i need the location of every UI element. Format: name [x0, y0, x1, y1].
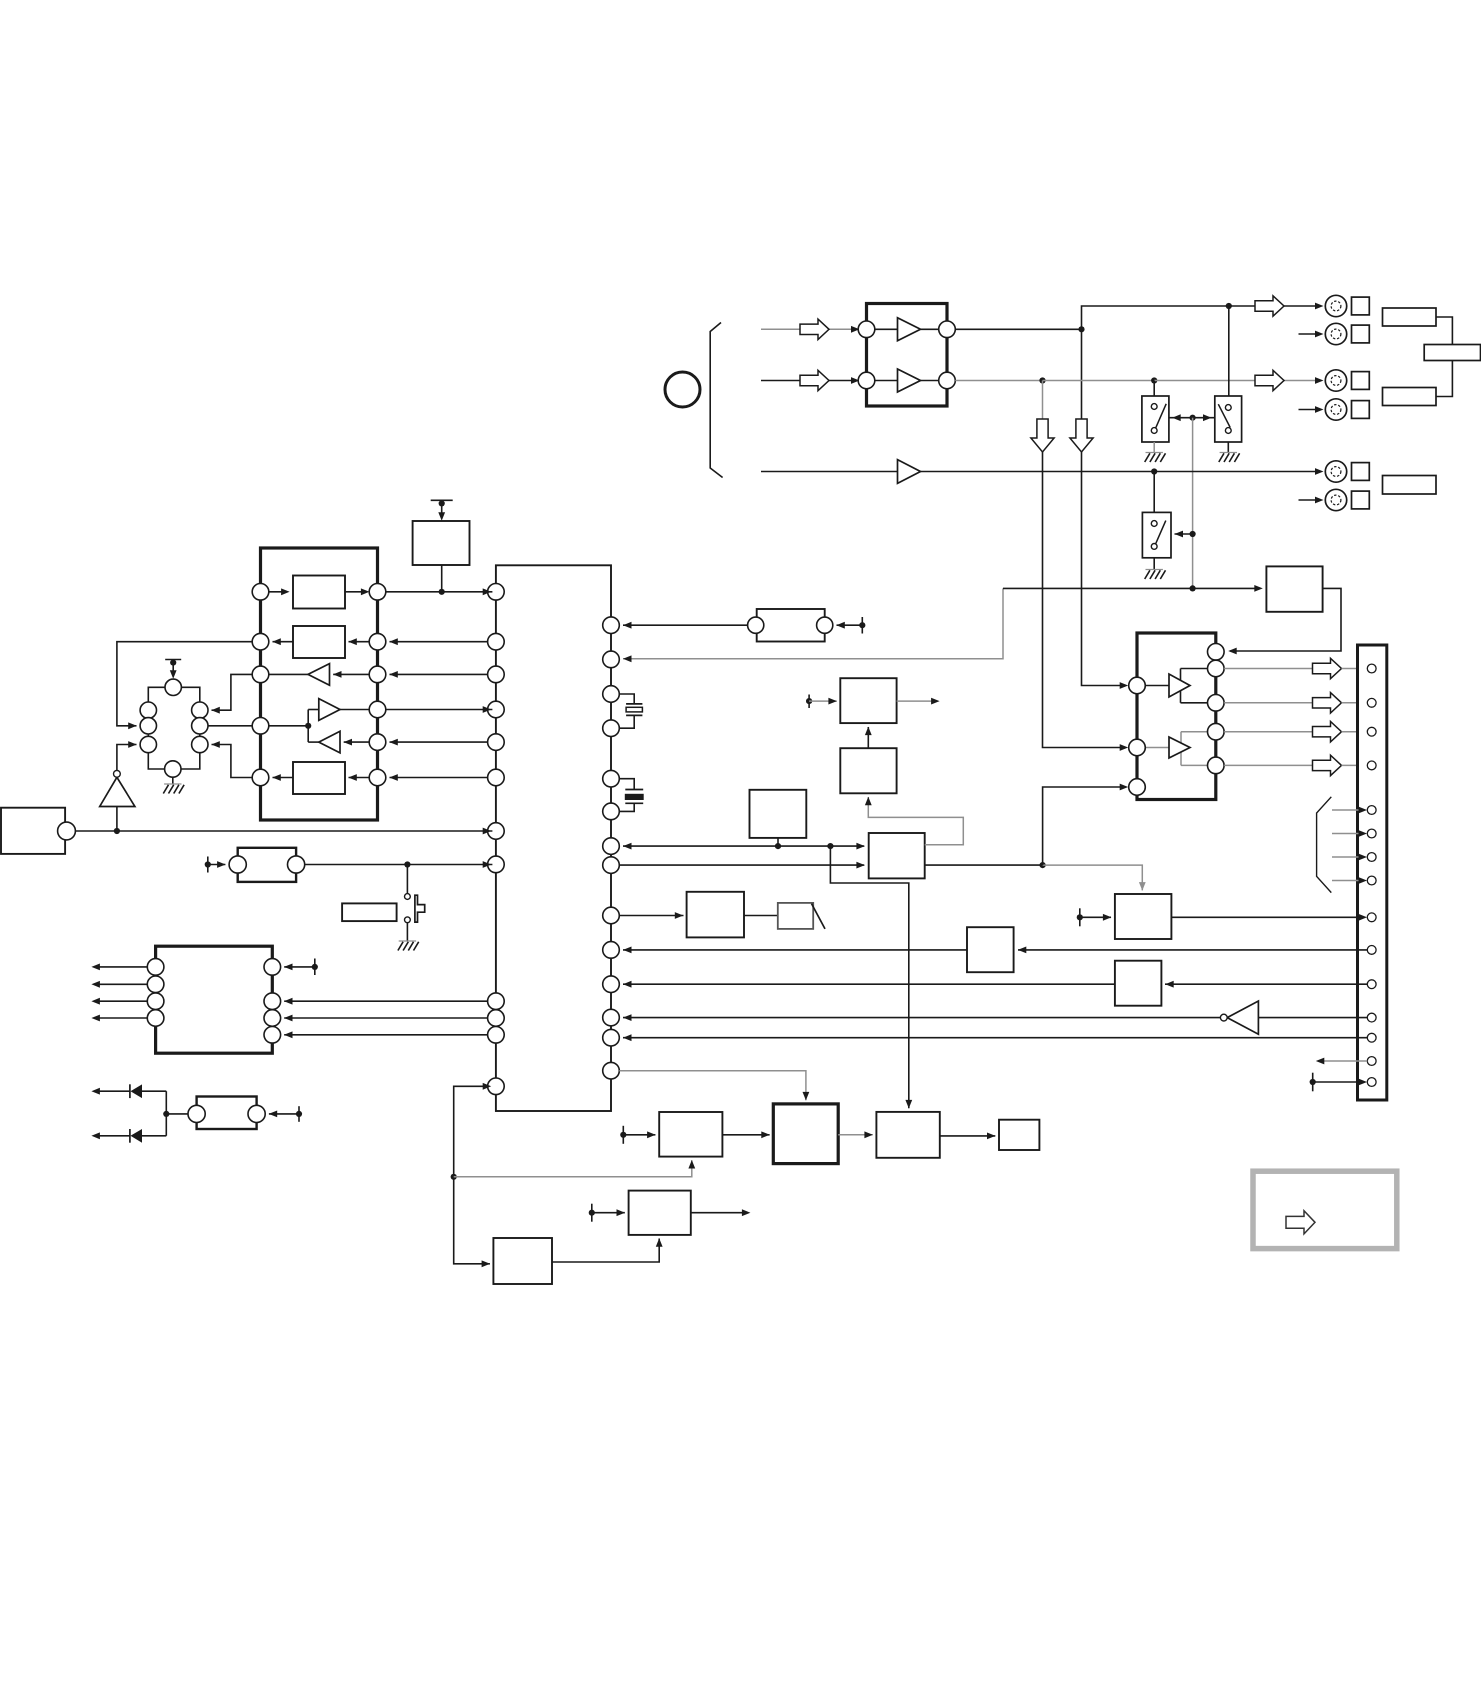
wire: TB.R591 to U3.L591	[386, 591, 493, 593]
tick feed P2	[284, 959, 318, 976]
pin U3.L864	[488, 856, 505, 873]
pin CN.13	[1367, 1033, 1376, 1042]
wire: U1 out1 to node J1	[955, 328, 1081, 330]
arrowhead into U3 pin 1038	[623, 1034, 632, 1041]
arrowhead into U3 pin 625	[623, 622, 632, 629]
wire: N1 to U3 pin 950	[623, 949, 967, 951]
wire: J7 down to switch S3	[1153, 472, 1155, 513]
wire stub to RCA6	[1299, 499, 1321, 501]
arrowhead into CN pin 5	[1359, 807, 1368, 814]
wire: J14 down to pushbutton SW1	[406, 865, 408, 894]
pin TB.R591	[369, 584, 386, 601]
pin RB.in3	[1129, 779, 1146, 796]
pin X0.c1	[140, 702, 156, 718]
wire: J11 up to RB pin 3	[1043, 787, 1125, 865]
wire: TB.L641 west-down to osc pin c2	[117, 642, 252, 726]
wire: CN pin 10 to N1	[1018, 949, 1367, 951]
pin U3.L831	[488, 823, 505, 840]
arrowhead into RCA3	[1315, 377, 1324, 384]
op-amp block U1	[867, 304, 948, 407]
diode D1	[91, 1084, 166, 1098]
pin U1.3	[939, 321, 956, 338]
arrowhead into RB pin 1	[1120, 682, 1129, 689]
arrowhead into osc d3	[211, 741, 220, 748]
arrowhead into M1 top	[1139, 882, 1146, 891]
block B6	[999, 1120, 1039, 1150]
pin P2.R1001	[264, 993, 281, 1010]
arrowhead into CN pin 1	[1342, 668, 1364, 670]
signal arrow A8	[1313, 755, 1342, 775]
wire: J4 down to switch S1	[1153, 381, 1155, 397]
terminal pad 6	[1352, 491, 1370, 509]
wire stub to RCA2	[1299, 333, 1321, 335]
wire: SB1 out to RB top pin	[1230, 588, 1341, 651]
arrowhead into CN pin 3	[1342, 731, 1364, 733]
buffer U1b	[875, 369, 939, 392]
wire: TB.R709 to U3.L709	[386, 709, 493, 711]
wire: U3.L641 to TB.R641	[390, 641, 488, 643]
signal arrow A5	[1313, 658, 1342, 678]
arrowhead into CN pin 2	[1342, 702, 1364, 704]
arrowhead west	[91, 1015, 100, 1022]
wire: X1 to U3 pin 625	[623, 624, 747, 626]
wire: U3.L1001 to P2.R1001	[284, 1000, 487, 1002]
oscillator ring X0	[148, 687, 200, 769]
pin X0.d1	[192, 702, 208, 718]
pin U3.L709	[488, 701, 505, 718]
pin X0.c2	[140, 718, 156, 734]
wire: RB out 2 to connector	[1224, 702, 1312, 704]
wire: net846 U3 pin to AMX	[623, 845, 864, 847]
ground below S1	[1146, 452, 1163, 454]
signal arrow A1	[800, 319, 829, 339]
pin CN.11	[1367, 980, 1376, 989]
pin U3.R915	[603, 907, 620, 924]
pin U3.R984	[603, 976, 620, 993]
wire: J15 to X3	[166, 1113, 187, 1115]
block B3	[659, 1112, 722, 1157]
pin CN.12	[1367, 1013, 1376, 1022]
wire: P2 out 1018 west	[95, 1017, 147, 1019]
arrowhead into B6	[987, 1133, 996, 1140]
bracket: input group brace	[710, 323, 722, 478]
buffer U2	[898, 460, 921, 484]
arrowhead into B4 top	[803, 1092, 810, 1101]
pin TB.L777	[252, 769, 269, 786]
wire: control line between S1 and S2	[1169, 417, 1215, 419]
junction J12	[439, 589, 445, 595]
wire: J10 down-over to B5 top	[830, 846, 908, 1108]
arrowhead into U1 pin 1	[851, 326, 860, 333]
pin U3.L591	[488, 584, 505, 601]
buffer RB.a wiring	[1145, 669, 1207, 703]
node: source group circle	[665, 372, 700, 407]
junction J3	[1039, 377, 1045, 383]
wire: CN pin 13 to U3 pin 1038	[623, 1037, 1367, 1039]
block MX2	[840, 748, 896, 793]
signal arrow A2	[800, 370, 829, 390]
signal arrow A6	[1313, 693, 1342, 713]
tick feed X3	[269, 1106, 302, 1122]
wire: R2 to R3	[1436, 361, 1452, 397]
block PA at U3 pin 915	[619, 915, 683, 917]
arrowhead into RCA1	[1315, 303, 1324, 310]
arrowhead into TB.R742	[389, 739, 398, 746]
wire: J3 to node J4	[1043, 380, 1155, 382]
pin CN.9	[1367, 913, 1376, 922]
pin U3.R778	[603, 770, 620, 787]
wire: input line 1 to amp U1	[761, 328, 853, 330]
connector RCA1	[1325, 295, 1346, 316]
label box R1	[1383, 308, 1437, 326]
interface block TB	[261, 548, 378, 820]
pin U3.R1017	[603, 1009, 620, 1026]
tick feed B2	[589, 1204, 625, 1222]
block TB.IB1	[269, 576, 370, 609]
wire: CN pin 12 to inverter	[1258, 1017, 1367, 1019]
pin TB.L725	[252, 718, 269, 735]
pin U3.R1070	[603, 1062, 620, 1079]
pin RB.o3	[1208, 723, 1225, 740]
pin X0.d3	[192, 736, 208, 752]
pin P2.L1018	[147, 1010, 164, 1027]
block B1	[493, 1238, 552, 1284]
wire: S1 to ground	[1153, 442, 1155, 453]
wire: J16 to B3 bottom	[454, 1160, 692, 1177]
arrowhead into P2.R1034	[284, 1031, 293, 1038]
pin P2.R1018	[264, 1010, 281, 1027]
arrowhead MX3 out	[931, 698, 940, 705]
arrowhead into RCA5	[1315, 468, 1324, 475]
wire: J11 to M1 top	[1043, 865, 1143, 890]
junction J5	[1190, 415, 1196, 421]
wire: P2 out 984 west	[95, 983, 147, 985]
arrowhead into osc c2	[128, 722, 137, 729]
arrowhead into P2.R1001	[284, 998, 293, 1005]
pin CN.5	[1367, 806, 1376, 815]
wire: MX2 to MX3	[867, 727, 869, 748]
pin CN.10	[1367, 946, 1376, 955]
arrowhead into TB.R641	[389, 638, 398, 645]
arrowhead into S3	[1175, 531, 1184, 538]
wire: B3 out to B4	[722, 1134, 769, 1136]
pin TB.L591	[252, 584, 269, 601]
switch S1	[1142, 396, 1169, 442]
wire: J4 to RCA3	[1154, 380, 1320, 382]
tick feed T1	[431, 500, 453, 520]
inverter V0	[100, 770, 135, 806]
arrowhead into RB pin 2	[1120, 744, 1129, 751]
page link frame	[1253, 1171, 1397, 1248]
pin P2.R966	[264, 959, 281, 976]
buffer TB.BT1	[269, 664, 369, 686]
arrowhead into U3.L709	[483, 706, 492, 713]
wire: U3.L777 to TB.R777	[390, 777, 488, 779]
signal arrow A3	[1255, 296, 1284, 316]
pin TB.R742	[369, 734, 386, 751]
pin TB.R674	[369, 666, 386, 683]
pin P2.L1001	[147, 993, 164, 1010]
wire: brace stub 4	[1332, 880, 1364, 882]
pin U3.R659	[603, 651, 620, 668]
capacitor C1 at pins 779/811	[619, 779, 643, 812]
wire: P2 out 966 west	[95, 966, 147, 968]
arrowhead into RB pin 0	[1228, 648, 1237, 655]
junction J4	[1151, 377, 1157, 383]
arrowhead into CN pin 6	[1359, 830, 1368, 837]
wire: RB out 4 to connector	[1224, 764, 1312, 766]
connector RCA4	[1325, 399, 1346, 420]
wire: U3.L674 to TB.R674	[390, 673, 488, 675]
block TB.IB3	[272, 762, 369, 794]
wire: U3.L1034 to P2.R1034	[284, 1034, 487, 1036]
wire: B4 out to B5	[838, 1134, 873, 1136]
connector RCA2	[1325, 323, 1346, 344]
pin RB.o0	[1208, 644, 1225, 661]
arrowhead into U3 pin 950	[623, 947, 632, 954]
junction J16	[451, 1174, 457, 1180]
wire: diode bus	[165, 1091, 167, 1136]
arrowhead into RB pin 3	[1120, 784, 1129, 791]
terminal pad 5	[1352, 463, 1370, 481]
arrowhead into B1	[482, 1260, 491, 1267]
arrowhead west	[91, 964, 100, 971]
wire: IC pin 659 up-over to SB1	[623, 588, 1003, 658]
wire: brace stub 3	[1332, 856, 1364, 858]
wire: U3.L1018 to P2.R1018	[284, 1017, 487, 1019]
pin U3.L777	[488, 769, 505, 786]
pin CN.15	[1367, 1078, 1376, 1087]
pin U3.R811	[603, 803, 620, 820]
wire: input line 2 to amp U1	[761, 380, 853, 382]
arrowhead into RCA6	[1315, 497, 1324, 504]
arrowhead into N2	[1165, 981, 1174, 988]
arrowhead into U3 pin 1018	[623, 1014, 632, 1021]
wire: V0 input stem	[116, 807, 118, 832]
wire: T1 to net591	[441, 565, 443, 592]
pin U3.L1001	[488, 993, 505, 1010]
junction J11	[1040, 862, 1046, 868]
wire: brace stub 1	[1332, 809, 1364, 811]
mixer block AMX	[869, 833, 925, 878]
label box R3	[1383, 388, 1437, 406]
pin U3.R949	[603, 942, 620, 959]
wire: V0 out up to osc c3	[117, 745, 137, 771]
connector RCA3	[1325, 370, 1346, 391]
wire: U3 pin 865 to AMX	[619, 864, 864, 866]
wire: J1 down to right amp RB pin	[1082, 329, 1126, 685]
wire: U3.L1086 elbow to B1 and B3	[454, 1086, 490, 1264]
pin U1.4	[939, 372, 956, 389]
diode D2	[91, 1129, 166, 1143]
block MX3	[840, 678, 896, 723]
pin RB.o4	[1208, 757, 1225, 774]
wire: top rail to RCA1	[1229, 305, 1320, 307]
arrowhead into B4	[761, 1131, 770, 1138]
wire: AMX out1 to MX2 (feedback)	[868, 797, 963, 845]
wire: X0 bottom to ground	[172, 777, 174, 784]
pin CN.8	[1367, 876, 1376, 885]
wire: N2 to U3 pin 984	[623, 983, 1115, 985]
arrowhead into B5	[864, 1131, 873, 1138]
driver block RB	[1137, 633, 1216, 800]
wire: J3 down to RB pin 2	[1042, 381, 1044, 453]
buffer TB.BT2 and TB.BT3	[269, 699, 369, 753]
main IC U3	[496, 565, 611, 1111]
pin P2.L984	[147, 976, 164, 993]
wire: AMX out2 east	[925, 864, 1043, 866]
pin LB.out	[58, 822, 76, 840]
pin U3.R846	[603, 838, 620, 855]
arrowhead into U3.L1086	[483, 1083, 492, 1090]
arrowhead into B3 bottom	[688, 1160, 695, 1169]
pin X0.d2	[192, 718, 208, 734]
wire: U1 out2 to node J3	[955, 380, 1042, 382]
arrowhead into U3.L864	[483, 861, 492, 868]
arrowhead into CN pin 9	[1359, 914, 1368, 921]
wire: J6 to S3	[1175, 533, 1193, 535]
ground below SW1	[399, 940, 416, 942]
pin TB.L674	[252, 666, 269, 683]
wire: U2 out to node J7	[921, 471, 1155, 473]
wire: RB out 3 to connector	[1224, 731, 1312, 733]
pin TB.R641	[369, 633, 386, 650]
IC P2	[156, 946, 273, 1053]
tick feed B3	[620, 1126, 655, 1144]
ground below S3	[1146, 569, 1163, 571]
wire stub to RCA4	[1299, 409, 1321, 411]
pin U3.R625	[603, 617, 620, 634]
tick feed M1	[1077, 908, 1112, 926]
wire: PA to PB	[744, 915, 778, 917]
wire: S3 to ground	[1153, 558, 1155, 570]
arrowhead into MX3 bottom	[865, 727, 872, 736]
connector RCA5	[1325, 461, 1346, 482]
pin RB.o1	[1208, 660, 1225, 677]
signal arrow A7	[1313, 722, 1342, 742]
pin TB.L641	[252, 633, 269, 650]
pushbutton SW1	[342, 894, 425, 923]
arrowhead into U3 pin 846	[623, 843, 632, 850]
wire: U3 pin 1071 to B4 top	[619, 1071, 806, 1101]
tick feed X0 top	[165, 660, 181, 679]
wire: P2 out 1001 west	[95, 1000, 147, 1002]
wire: SW1 to ground	[406, 923, 408, 941]
pin P2.R1034	[264, 1027, 281, 1044]
pin CN.4	[1367, 761, 1376, 770]
pin TB.R777	[369, 769, 386, 786]
pin CN.3	[1367, 727, 1376, 736]
arrowhead into P2.R1018	[284, 1015, 293, 1022]
arrowhead into B5 top	[905, 1100, 912, 1109]
terminal pad 2	[1352, 325, 1370, 343]
pin RB.o2	[1208, 695, 1225, 712]
tick feed MX3	[806, 695, 837, 709]
arrowhead into U3.L591	[483, 588, 492, 595]
arrowhead into S2	[1203, 414, 1212, 421]
arrowhead into RCA4	[1315, 406, 1324, 413]
tick feed X1	[836, 617, 865, 634]
wire: J2 down to switch S2	[1228, 306, 1230, 396]
switch S2	[1215, 396, 1242, 442]
pin RB.in1	[1129, 677, 1146, 694]
arrowhead into CN pin 7	[1359, 854, 1368, 861]
pin U3.L1086	[488, 1078, 505, 1095]
wire: TB.L777 to osc d3	[212, 745, 253, 778]
pin CN.2	[1367, 698, 1376, 707]
junction J6	[1190, 531, 1196, 537]
thermistor PB	[778, 903, 825, 929]
connector RCA6	[1325, 489, 1346, 510]
wire: B2 out east	[691, 1212, 747, 1214]
pin U3.R694	[603, 686, 620, 703]
wire: CN pin 14 stub	[1319, 1060, 1367, 1062]
junction J7	[1151, 468, 1157, 474]
pin U3.L1018	[488, 1010, 505, 1027]
wire: V1 out to U3 pin 1018	[623, 1017, 1220, 1019]
arrowhead into osc d1	[211, 707, 220, 714]
wire: MX3 out	[897, 700, 936, 702]
pin U3.L742	[488, 734, 505, 751]
terminal pad 3	[1352, 372, 1370, 390]
pin CN.14	[1367, 1057, 1376, 1066]
wire: B1 out to B2 bottom	[552, 1239, 659, 1263]
wire: TB.L674 to osc d1	[212, 674, 253, 710]
arrowhead into CN pin 8	[1359, 877, 1368, 884]
arrowhead into osc c3	[128, 741, 137, 748]
arrowhead into RCA2	[1315, 331, 1324, 338]
wire: control bus down from J5	[1192, 418, 1194, 589]
block LB	[1, 808, 65, 854]
wire: S2 to ground	[1227, 442, 1229, 453]
flow arrow D1 (down)	[1031, 419, 1054, 452]
junction J10	[827, 843, 833, 849]
arrowhead west	[91, 981, 100, 988]
label box R2	[1424, 345, 1480, 361]
tick feed CN pin 15	[1310, 1073, 1367, 1092]
crystal X1	[748, 609, 833, 642]
inverter V1	[1220, 1001, 1258, 1034]
arrowhead into IC pin (658.8)	[623, 655, 632, 662]
flow arrow D2 (down)	[1070, 419, 1093, 452]
arrowhead into S1	[1172, 414, 1181, 421]
junction J13	[114, 828, 120, 834]
arrowhead into AMX in2	[856, 862, 865, 869]
arrowhead into U3 pin 984	[623, 981, 632, 988]
block N1	[967, 927, 1014, 972]
pin P2.L966	[147, 959, 164, 976]
junction J14	[404, 861, 410, 867]
ground below X0	[164, 783, 181, 785]
wire: LB to U3.L831	[75, 830, 492, 832]
block SB1	[1266, 566, 1322, 611]
connector CN strip	[1358, 645, 1387, 1100]
arrowhead into U1 pin 2	[851, 377, 860, 384]
junction J1	[1078, 326, 1084, 332]
block T1	[413, 521, 470, 565]
switch S3	[1142, 512, 1171, 557]
arrowhead into TB.R674	[389, 671, 398, 678]
buffer U1a	[875, 318, 939, 341]
pin U3.L641	[488, 633, 505, 650]
pin TB.R709	[369, 701, 386, 718]
pin CN.1	[1367, 664, 1376, 673]
arrowhead into SB1	[1254, 585, 1263, 592]
pin U3.R1037	[603, 1029, 620, 1046]
pin X0.bottom	[165, 761, 181, 777]
pin U1.2	[858, 372, 875, 389]
pin RB.in2	[1129, 739, 1146, 756]
